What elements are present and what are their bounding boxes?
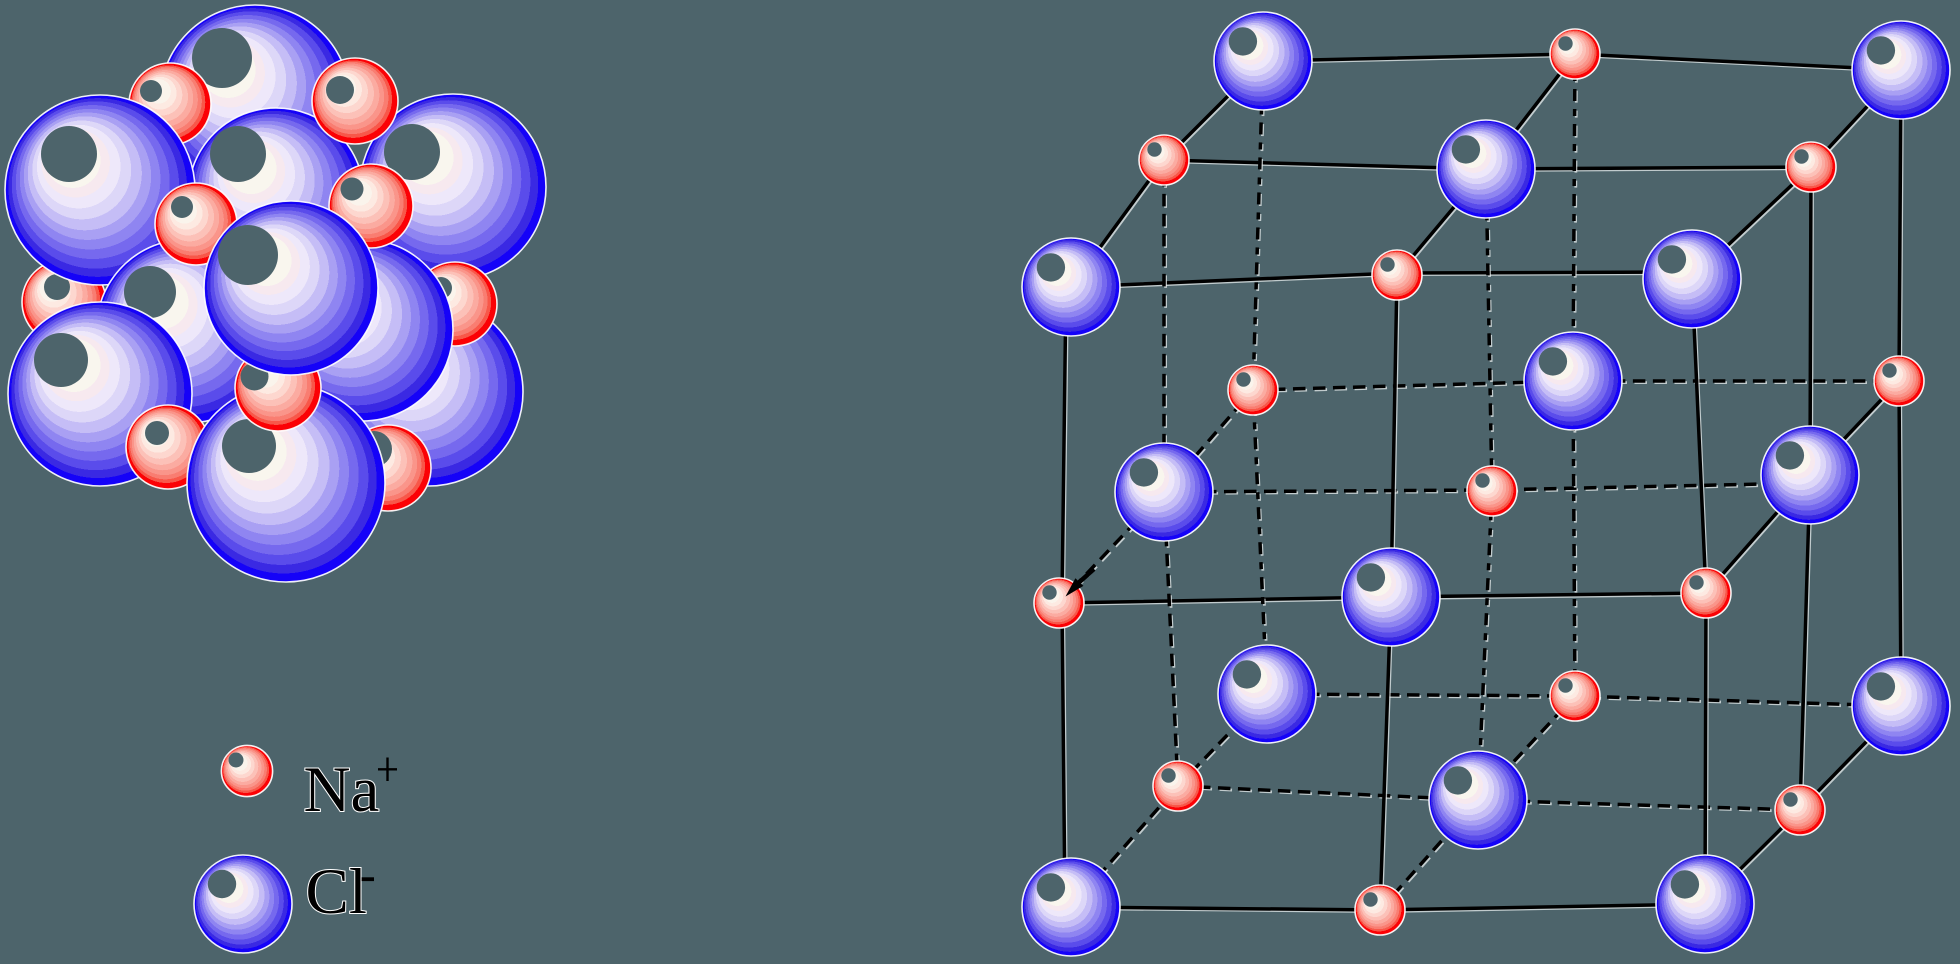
lattice Cl corner front-bottom-left bbox=[1022, 858, 1120, 956]
cluster Na bottom-right bbox=[345, 425, 431, 511]
wire center vertical bbox=[1478, 169, 1494, 802]
lattice Cl face back bbox=[1524, 332, 1622, 430]
lattice Na edge bottom-right bbox=[1775, 785, 1825, 835]
wire front-right edge bbox=[1692, 279, 1708, 906]
lattice Na body center bbox=[1467, 466, 1517, 516]
cluster Na top-right bbox=[312, 58, 398, 144]
legend Na+ sphere bbox=[221, 745, 272, 796]
lattice Na edge front-right bbox=[1681, 568, 1731, 618]
wire center horizontal bbox=[1164, 483, 1812, 494]
lattice Na edge front-top bbox=[1372, 250, 1422, 300]
wire back-right edge bbox=[1899, 70, 1903, 708]
cluster Na mid-upper-left bbox=[155, 183, 237, 265]
cluster Na mid-left bbox=[22, 260, 106, 344]
wire left mid vertical bbox=[1164, 160, 1180, 788]
cluster Na top-left bbox=[129, 63, 211, 145]
lattice Cl face bottom bbox=[1429, 751, 1527, 849]
legend label Na+ bbox=[304, 754, 398, 928]
lattice Cl corner front-bottom-right bbox=[1656, 855, 1754, 953]
wire right mid depth bbox=[1706, 381, 1901, 595]
lattice Cl face left bbox=[1115, 443, 1213, 541]
cluster Na bottom-left bbox=[126, 405, 210, 489]
wire front mid horizontal bbox=[1059, 593, 1708, 605]
lattice Cl corner front-top-left bbox=[1022, 238, 1120, 336]
cluster Cl C left bbox=[5, 95, 195, 285]
wire back-top edge bbox=[1263, 54, 1903, 72]
lattice Cl face top bbox=[1437, 120, 1535, 218]
arrowhead at Na front-left edge bbox=[1066, 578, 1084, 596]
lattice Na edge top-left bbox=[1139, 135, 1189, 185]
wire right mid vertical bbox=[1800, 167, 1813, 812]
cluster Cl M upper-mid bbox=[188, 108, 364, 284]
lattice Na edge back-top bbox=[1550, 29, 1600, 79]
cluster Cl N mid-right bbox=[271, 239, 453, 421]
wire front-bottom edge bbox=[1071, 904, 1707, 912]
cluster Cl E upper-right bbox=[360, 94, 546, 280]
cluster Na front-center bbox=[235, 345, 321, 431]
lattice Na edge bottom-left bbox=[1153, 761, 1203, 811]
cluster Cl I mid-left bbox=[96, 239, 280, 423]
lattice Na edge top-right bbox=[1786, 142, 1836, 192]
wire front-top edge bbox=[1071, 272, 1694, 289]
cluster Na mid-right-outer bbox=[413, 262, 497, 346]
cluster Cl D center bbox=[204, 201, 378, 375]
lattice Cl corner back-top-right bbox=[1852, 21, 1950, 119]
svg-text:Na: Na bbox=[304, 754, 380, 826]
wire bottom mid depth-row bbox=[1178, 786, 1802, 812]
wire top mid depth bbox=[1397, 54, 1577, 277]
lattice Cl face right bbox=[1761, 426, 1859, 524]
wire left mid depth (arrow) bbox=[1059, 390, 1255, 605]
wire back mid horizontal bbox=[1253, 381, 1901, 392]
lattice Na edge front-left bbox=[1034, 578, 1084, 628]
wire top mid horizontal bbox=[1164, 160, 1813, 171]
lattice Na edge back-right bbox=[1874, 356, 1924, 406]
legend Cl- sphere bbox=[194, 855, 292, 953]
wire front mid vertical bbox=[1380, 275, 1399, 912]
lattice Cl corner back-top-left bbox=[1214, 12, 1312, 110]
wire back-left edge bbox=[1253, 61, 1269, 696]
cluster Cl H bottom-right bbox=[335, 298, 523, 486]
cluster Cl A top bbox=[160, 5, 350, 195]
wire bottom mid depth bbox=[1380, 696, 1577, 912]
cluster Cl G bottom bbox=[187, 384, 385, 582]
wire top-right depth edge bbox=[1692, 70, 1903, 281]
lattice Cl corner back-bottom-right bbox=[1852, 657, 1950, 755]
lattice Na edge back-left bbox=[1228, 365, 1278, 415]
lattice Na edge back-bottom bbox=[1550, 671, 1600, 721]
wire bottom-left depth edge bbox=[1071, 694, 1269, 909]
wire top-left depth edge bbox=[1071, 61, 1265, 289]
cluster Na right bbox=[329, 164, 413, 248]
lattice Na edge front-bottom bbox=[1355, 885, 1405, 935]
lattice Cl corner back-bottom-left bbox=[1218, 645, 1316, 743]
wire back-bottom edge bbox=[1267, 694, 1903, 708]
lattice Cl corner front-top-right bbox=[1643, 230, 1741, 328]
cluster Cl F bottom-left bbox=[8, 302, 192, 486]
wire back mid vertical bbox=[1573, 54, 1577, 698]
wire front-left edge bbox=[1062, 287, 1068, 910]
svg-text:Cl: Cl bbox=[306, 856, 367, 928]
wire bottom-right depth edge bbox=[1705, 706, 1903, 906]
lattice Cl face front bbox=[1342, 548, 1440, 646]
